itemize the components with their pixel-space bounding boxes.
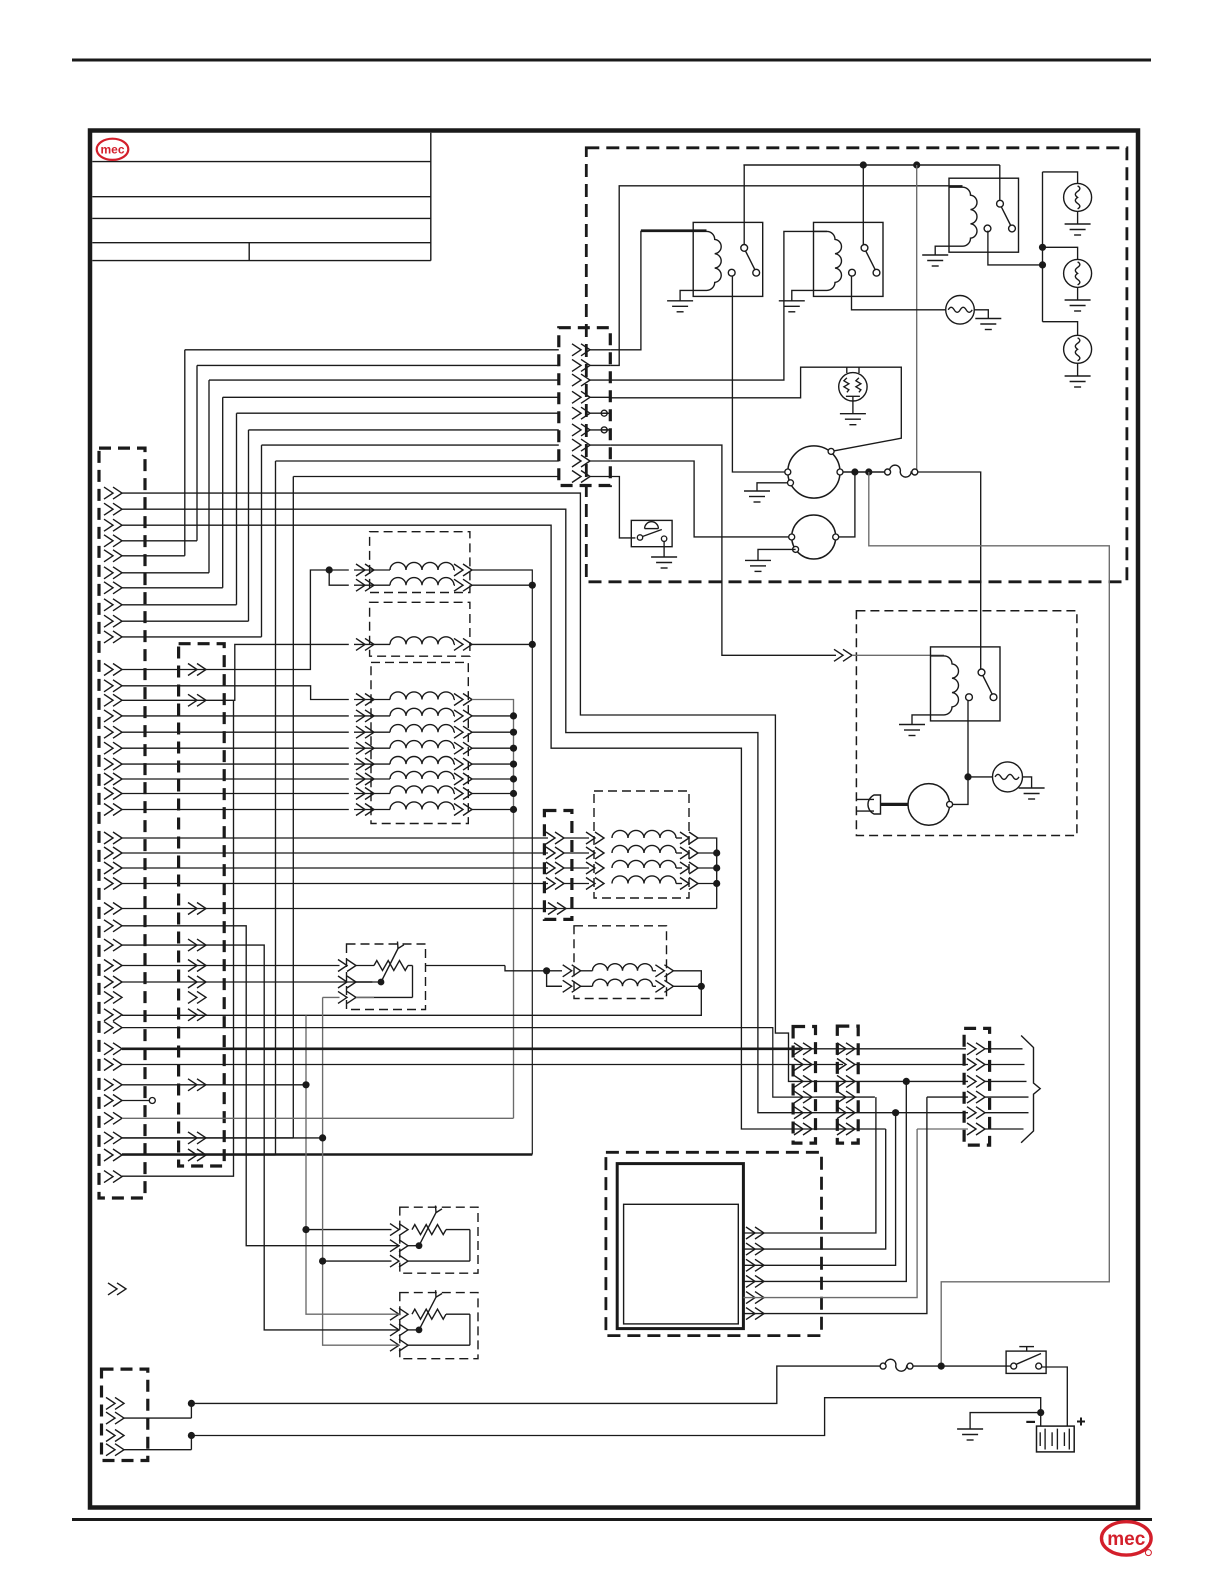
- plus sign: [1077, 1421, 1085, 1423]
- hour meter ground: [663, 541, 665, 557]
- V4 return row to P1: [122, 908, 717, 910]
- wire K1 NO contact to motor M1: [732, 276, 785, 472]
- connector box CP (top middle): [559, 328, 611, 486]
- relay K2 ground: [792, 290, 814, 300]
- wire F1 to relay K4 common: [918, 472, 981, 669]
- wire CP2 to relay K3 coil: [610, 186, 962, 366]
- relay K4: [931, 647, 1001, 721]
- charger motor CH: [953, 777, 968, 805]
- connector box B: [837, 1026, 858, 1143]
- P2 connector pin arrows: [197, 664, 206, 676]
- wire K4 NO to charger junction: [967, 701, 969, 777]
- valve V2 row: [365, 638, 374, 650]
- wire F2 to key switch: [913, 1365, 1010, 1367]
- wire M1 to fuse F1: [843, 471, 884, 473]
- valve box VB5: [574, 926, 667, 999]
- wire K3 NC to lamp bus: [988, 231, 1043, 265]
- valve box VB3: [371, 662, 468, 823]
- wire P1 r38 to x322 junction: [122, 1137, 323, 1139]
- motor M2 ground: [758, 549, 796, 560]
- fuse F1: [885, 469, 891, 475]
- charger compartment box (lower right dashed): [856, 611, 1077, 836]
- wire key switch to battery +: [1042, 1367, 1068, 1426]
- valve V1a row: [365, 564, 374, 576]
- connector box P2: [179, 644, 225, 1166]
- P4 wires pair 2: [188, 1432, 195, 1439]
- relay K1 ground: [680, 290, 693, 300]
- title block: [92, 161, 431, 163]
- wire P1 r32 to A4 (grey): [122, 1028, 816, 1098]
- lamp DL2 ground: [1077, 287, 1079, 300]
- P1 connector pin arrows: [113, 487, 122, 499]
- motor M1 (pump): [788, 446, 840, 498]
- wire P1 r26 to pot R2 wiper: [122, 926, 400, 1246]
- valve box VB1: [370, 532, 470, 593]
- drawing border: [90, 131, 1138, 1508]
- valve V4 rows: [122, 837, 548, 839]
- wire P1r13 to V2: [122, 644, 349, 700]
- bottom rule: [72, 1518, 1152, 1521]
- CP connector pin arrows: [581, 344, 590, 356]
- row4 segments: [816, 1096, 875, 1098]
- wire V1 feeds: [326, 566, 333, 573]
- hour meter HM: [631, 520, 672, 546]
- lamp DL1: [1064, 183, 1092, 211]
- wire to lamp DL2: [1043, 247, 1078, 259]
- wire chain pot3 vertical x322: [323, 997, 400, 1345]
- lamp bus vertical: [1042, 172, 1044, 322]
- connector box P4 (bottom left): [102, 1369, 148, 1460]
- valve V5 rows: [547, 970, 562, 972]
- standalone arrow: [117, 1283, 126, 1295]
- wire P1 row1 chain to A3: [122, 493, 816, 1081]
- heavy row1 from P1 through A,B,C: [122, 1048, 800, 1051]
- wire to lamp DL3: [1043, 322, 1078, 336]
- wire to K1 common: [743, 165, 745, 244]
- bottom-right mec logo: [1102, 1522, 1152, 1555]
- minus sign: [1026, 1421, 1035, 1423]
- A/B/C connector arrows: [803, 1043, 812, 1055]
- wire P1r10 return loop: [122, 700, 234, 1176]
- fuse F2: [880, 1363, 886, 1369]
- charger indicator lamp: [968, 776, 993, 778]
- mec logo title block: [97, 139, 129, 160]
- P4 rows: [115, 1397, 124, 1409]
- wire K2 NC contact to horn: [852, 276, 946, 310]
- row2 from P1 through A,B,C: [122, 1064, 843, 1066]
- motor M2 (lift): [792, 515, 836, 559]
- V3 return bus to P1 (grey): [122, 1117, 514, 1119]
- valve box VB2: [370, 602, 470, 656]
- lamp DL2: [1064, 259, 1092, 287]
- horn ground: [974, 310, 988, 319]
- wire to K3 common: [999, 165, 1001, 200]
- wire to lamp DL1: [1043, 172, 1078, 184]
- alarm ground: [852, 396, 854, 413]
- wire P1 row2 chain to A5: [122, 509, 816, 1112]
- pot box R1: [347, 944, 426, 1010]
- plug symbol: [857, 798, 875, 800]
- pot box R3: [400, 1293, 478, 1359]
- key symbol: [1026, 1347, 1028, 1352]
- horn H1: [946, 296, 975, 325]
- wire CP3 to relay K2 coil: [610, 231, 827, 380]
- lamp DL1 ground: [1077, 211, 1079, 224]
- V5 return to P1/P2 row: [122, 986, 701, 1015]
- relay K3: [949, 178, 1019, 252]
- svg-text:mec: mec: [100, 143, 124, 157]
- key switch KS: [1006, 1351, 1046, 1373]
- control module inner board: [624, 1204, 739, 1324]
- battery ground: [970, 1413, 1041, 1429]
- CP6 spare stub: [602, 429, 611, 431]
- junction dot: [913, 161, 920, 168]
- relay K3 ground: [935, 246, 949, 255]
- wire CP8 to motor M2: [610, 461, 789, 537]
- svg-text:mec: mec: [1107, 1529, 1145, 1550]
- wires P1 r14-r20 to V3: [122, 715, 349, 717]
- valve box VB4: [594, 791, 689, 898]
- wire to K2 common: [862, 165, 864, 244]
- valve V3 rows: [365, 694, 374, 706]
- wire chain pot feeds vertical x306: [306, 1015, 400, 1314]
- junction dot: [860, 161, 867, 168]
- wire M2 branch: [839, 472, 855, 537]
- row5 A to C with module tap: [816, 1112, 969, 1114]
- lamp DL3 ground: [1077, 363, 1079, 376]
- wire CP9 to hour meter: [610, 477, 635, 538]
- pot R2 rows: [399, 1224, 408, 1236]
- control module outer case: [617, 1164, 743, 1329]
- V5 feed jog from pot row1: [426, 965, 506, 967]
- V1/V2 return bus to P1 (heavy): [472, 570, 532, 1155]
- alarm AL1: [839, 373, 867, 401]
- row3 A to C with module tap: [816, 1080, 969, 1082]
- wire battery feed down to fuse F1: [916, 165, 918, 472]
- module output arrows: [755, 1227, 764, 1239]
- wire charger sense (grey): [869, 472, 1110, 1363]
- wire P1 r27 to pot R3 wiper: [122, 945, 400, 1330]
- pot R3 rows: [399, 1308, 408, 1320]
- P4 wires pair 1: [188, 1400, 195, 1407]
- bus wire top (battery feed): [743, 164, 999, 166]
- wire ladder P1 to CP: [185, 349, 559, 351]
- V5 feed wire: [505, 966, 547, 971]
- wire P1 row3 chain to A6: [122, 525, 816, 1129]
- valve V1b row: [365, 579, 374, 591]
- relay K1: [693, 222, 763, 296]
- relay K2: [814, 222, 884, 296]
- connector box C: [964, 1028, 990, 1145]
- top rule: [72, 59, 1151, 62]
- platform box (top right dashed): [586, 148, 1127, 582]
- small connector box coil4 feed: [544, 811, 572, 920]
- pot box R2: [400, 1207, 478, 1273]
- connector box A: [793, 1027, 815, 1144]
- connector box P1 (left tall): [99, 448, 145, 1198]
- P1 r24 spare stub with terminal: [122, 1100, 149, 1102]
- wire CP4 to alarm/motor net: [610, 367, 901, 451]
- CP5 spare stub: [602, 412, 611, 414]
- battery BAT: [1037, 1426, 1075, 1452]
- lamp DL3: [1064, 335, 1092, 363]
- relay K4 ground: [912, 715, 931, 725]
- brace: [1021, 1036, 1040, 1143]
- wire CP7 to relay K4 coil: [610, 445, 836, 655]
- wire P1r11 to V1: [122, 570, 329, 670]
- wire CP1 to relay K1 coil: [610, 231, 693, 349]
- battery negative junction: [1037, 1409, 1044, 1416]
- wire P1r12 to V3 row1: [122, 686, 349, 700]
- control module dashed box: [606, 1152, 822, 1335]
- wire P1 r35 to x306 junction: [122, 1084, 306, 1086]
- pot R1 rows: [347, 960, 356, 972]
- motor M1 ground: [757, 483, 788, 491]
- row6 segments: [816, 1128, 886, 1130]
